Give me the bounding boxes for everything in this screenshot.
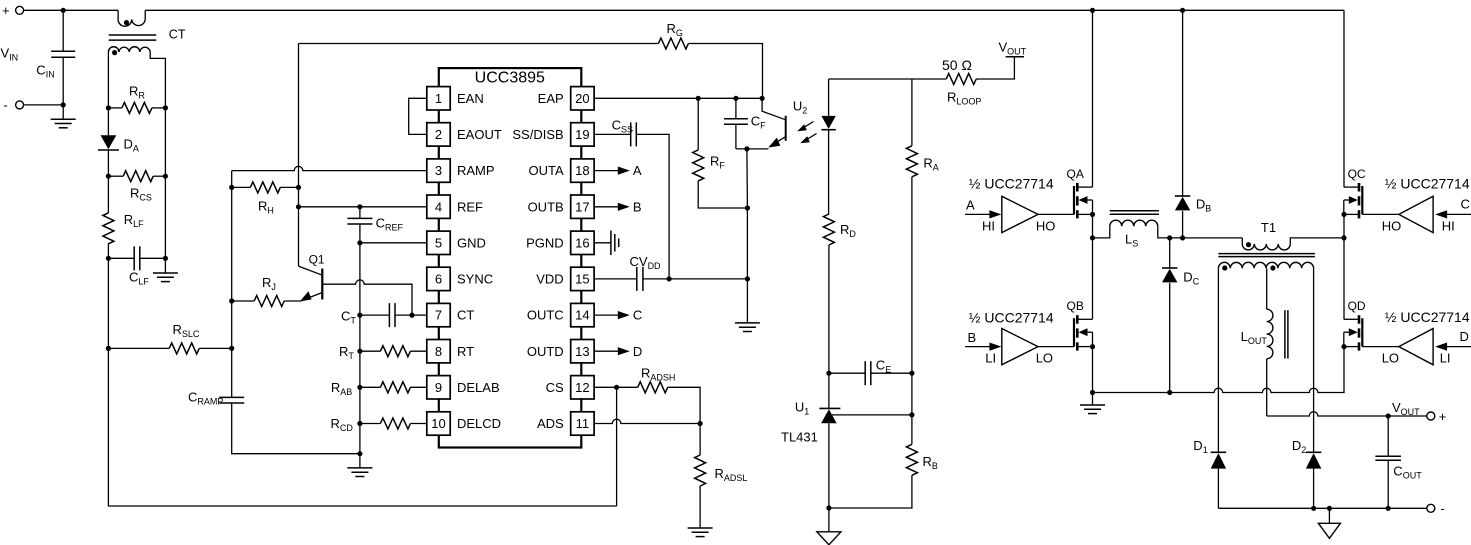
svg-text:5: 5 (435, 235, 442, 250)
resistor R_T (360, 350, 381, 352)
diode D_1 (1211, 451, 1227, 453)
svg-text:A: A (633, 163, 642, 178)
pin 3 RAMP (427, 159, 450, 182)
node C_F top (733, 96, 738, 101)
resistor R_H (232, 186, 251, 188)
svg-text:CT: CT (169, 28, 186, 42)
node rail/D_B (1180, 8, 1185, 13)
wire REF pin lead (299, 206, 427, 208)
ground below C_IN (62, 105, 64, 119)
diode D_C (1169, 238, 1171, 268)
svg-text:D: D (1460, 329, 1469, 344)
wire right branch CT (164, 108, 166, 176)
wire secondary left to D_1 (1217, 268, 1219, 452)
svg-text:EAOUT: EAOUT (457, 127, 502, 142)
wire PGND (594, 242, 611, 244)
svg-text:OUTA: OUTA (529, 163, 564, 178)
optocoupler U2 LED (828, 79, 830, 116)
svg-text:1: 1 (435, 91, 442, 106)
svg-text:UCC3895: UCC3895 (475, 70, 545, 87)
capacitor C_RAMP (219, 396, 244, 398)
inductor L_S (1093, 226, 1110, 238)
node output gnd stub (1327, 506, 1332, 511)
svg-text:6: 6 (435, 272, 442, 287)
svg-text:SYNC: SYNC (457, 272, 493, 287)
pin 5 GND (427, 231, 450, 254)
ground PGND sideways (610, 231, 612, 256)
resistor R_R (108, 107, 122, 109)
inductor L_OUT core (1284, 310, 1286, 358)
ground below R_ADSL (688, 527, 713, 529)
op-amp U? IC body UCC3895 (439, 68, 582, 447)
wire TL431 ref lead (832, 414, 912, 416)
svg-text:½ UCC27714: ½ UCC27714 (969, 309, 1054, 325)
node phase A / L_S tap (1090, 235, 1095, 240)
node R_R right (163, 105, 168, 110)
svg-text:T1: T1 (1261, 220, 1276, 235)
wire driver B output (1038, 346, 1074, 348)
svg-text:14: 14 (575, 308, 589, 323)
node V_IN-/ground junction (61, 102, 66, 107)
wire V_OUT+ line with hop (1267, 412, 1427, 416)
resistor R_CD (360, 423, 381, 425)
svg-text:17: 17 (575, 199, 589, 214)
svg-text:20: 20 (575, 91, 589, 106)
diode D_2 (1306, 451, 1322, 453)
V_OUT- terminal (1427, 504, 1435, 512)
svg-text:+: + (2, 3, 10, 18)
capacitor CV_DD (636, 267, 638, 291)
pin 2 EAOUT (427, 123, 450, 146)
svg-text:OUTC: OUTC (527, 308, 564, 323)
pin 6 SYNC (427, 267, 450, 290)
capacitor C_SS (594, 133, 631, 135)
wire divider mid (911, 373, 913, 415)
resistor R_A (911, 79, 913, 146)
wire GND pin lead (360, 242, 427, 244)
svg-text:15: 15 (575, 272, 589, 287)
wire R_R to D_A (107, 108, 109, 135)
wire OUTB (594, 206, 618, 208)
node C_LF left (106, 256, 111, 261)
ground chassis below TL431 (828, 508, 830, 532)
svg-text:D: D (633, 344, 642, 359)
wire analog ground vertical (359, 243, 361, 454)
pin 19 SS/DISB (571, 123, 594, 146)
svg-text:B: B (633, 199, 642, 214)
node R_R left (106, 105, 111, 110)
node QC source (1341, 212, 1346, 217)
resistor R_G (299, 43, 659, 45)
ground bridge (1092, 393, 1094, 405)
ground chassis output (1328, 508, 1330, 523)
svg-text:DELAB: DELAB (457, 380, 500, 395)
svg-text:RAMP: RAMP (457, 163, 495, 178)
svg-text:QC: QC (1348, 167, 1366, 181)
wire secondary center tap (1266, 268, 1268, 309)
arrow OUTD D (618, 347, 630, 355)
node gnd rail/D_C (1167, 390, 1172, 395)
svg-text:½ UCC27714: ½ UCC27714 (1385, 309, 1470, 325)
wire VDD lead (594, 278, 637, 280)
node R_CS left (106, 174, 111, 179)
node C_E left (826, 371, 831, 376)
node QD source (1341, 344, 1346, 349)
svg-text:TL431: TL431 (781, 430, 818, 445)
pin 7 CT (427, 303, 450, 326)
svg-text:4: 4 (435, 199, 442, 214)
transistor Q1 (299, 266, 322, 275)
node R_SLC right (229, 346, 234, 351)
svg-text:ADS: ADS (537, 416, 564, 431)
node R_H left (229, 185, 234, 190)
node C_T left (357, 313, 362, 318)
svg-text:Q1: Q1 (309, 253, 325, 267)
svg-text:½ UCC27714: ½ UCC27714 (1385, 176, 1470, 192)
node ADS junction (698, 421, 703, 426)
wire emitter net (736, 148, 769, 150)
wire V_IN- lead (24, 104, 64, 106)
node EAP/R_G corner (760, 96, 765, 101)
wire opto top rail (829, 78, 947, 80)
transformer T1 primary (1241, 238, 1243, 244)
transformer T1 secondary (1218, 262, 1313, 268)
pin 17 OUTB (571, 195, 594, 218)
node R_F top (696, 96, 701, 101)
wire OUTD (594, 350, 618, 352)
node R_SLC left (106, 346, 111, 351)
shunt regulator U1 TL431 (828, 373, 830, 408)
pin 10 DELCD (427, 412, 450, 435)
wire RAMP vertical branch (231, 171, 233, 398)
svg-text:13: 13 (575, 344, 589, 359)
node C_SS/VDD net (667, 276, 672, 281)
transformer CT secondary (107, 52, 109, 108)
capacitor C_IN (62, 10, 64, 51)
node R_AB (357, 385, 362, 390)
svg-text:HO: HO (1036, 218, 1056, 233)
capacitor C_E (829, 372, 865, 374)
node R_H right (296, 185, 301, 190)
wire CS to bottom run (616, 387, 618, 506)
capacitor C_F (735, 98, 737, 118)
ground VDD net (746, 279, 748, 323)
arrow OUTB B (618, 203, 630, 211)
transformer CT core (109, 34, 157, 36)
node D_B bottom (1180, 235, 1185, 240)
transformer CT primary (117, 10, 119, 19)
svg-text:12: 12 (575, 380, 589, 395)
svg-text:LO: LO (1382, 350, 1399, 365)
node R_T (357, 349, 362, 354)
svg-text:11: 11 (576, 416, 590, 431)
wire OUTC (594, 314, 618, 316)
node D_2 anode (1311, 506, 1316, 511)
svg-text:B: B (968, 330, 977, 345)
svg-text:7: 7 (435, 308, 442, 323)
capacitor C_LF (108, 257, 134, 259)
node ground rail bottom (357, 451, 362, 456)
resistor R_AB (360, 386, 381, 388)
arrow OUTC C (618, 311, 630, 319)
resistor R_LOOP 50ohm (946, 74, 976, 85)
svg-text:-: - (1440, 501, 1444, 516)
- input terminal (16, 101, 24, 109)
svg-text:10: 10 (431, 416, 445, 431)
svg-text:16: 16 (575, 235, 589, 250)
wire V_IN+ top rail (24, 9, 119, 11)
svg-text:3: 3 (435, 163, 442, 178)
svg-text:CT: CT (457, 308, 474, 323)
wire Q1 base to CT pin with hop (322, 280, 412, 315)
svg-text:C: C (1461, 197, 1470, 212)
svg-text:2: 2 (435, 127, 442, 142)
node emitter net tee (744, 146, 749, 151)
node R_CS right (163, 174, 168, 179)
svg-text:9: 9 (435, 380, 442, 395)
node R_CD (357, 421, 362, 426)
node GND/C_REF (357, 240, 362, 245)
resistor R_ADSH (638, 382, 668, 393)
pin 14 OUTC (571, 303, 594, 326)
capacitor C_OUT (1387, 416, 1389, 456)
svg-text:19: 19 (575, 127, 589, 142)
wire REF vertical branch (298, 44, 300, 267)
ground right of C_LF (164, 258, 166, 272)
wire QC drain to rail (1343, 10, 1345, 187)
pin 18 OUTA (571, 159, 594, 182)
resistor R_F (697, 98, 699, 150)
resistor R_ADSL (699, 424, 701, 456)
inductor L_OUT (1267, 309, 1273, 359)
wire driver A output (1038, 213, 1074, 215)
wire EAP lead (594, 97, 762, 99)
wire phase node A (1092, 214, 1094, 319)
svg-text:50 Ω: 50 Ω (942, 57, 972, 73)
svg-text:HI: HI (982, 218, 995, 233)
resistor R_CS (108, 175, 123, 177)
wire OUTA (594, 170, 618, 172)
resistor R_J (232, 300, 255, 302)
svg-text:HO: HO (1382, 219, 1402, 234)
svg-text:QD: QD (1348, 299, 1366, 313)
node D_C top (1167, 235, 1172, 240)
svg-text:8: 8 (435, 344, 442, 359)
svg-text:OUTB: OUTB (528, 199, 564, 214)
pin 9 DELAB (427, 376, 450, 399)
node ref/divider (909, 412, 914, 417)
node CT pin junction (409, 313, 414, 318)
arrow OUTA A (618, 167, 630, 175)
wire CS bottom run (108, 348, 616, 506)
resistor R_LF (107, 176, 109, 213)
diode D_B (1182, 10, 1184, 196)
wire D_A to R_CS (107, 150, 109, 176)
node CS junction (614, 385, 619, 390)
inductor L_S core (1110, 210, 1159, 212)
wire ADS lead with hop (594, 419, 700, 423)
svg-text:18: 18 (575, 163, 589, 178)
pin 11 ADS (571, 412, 594, 435)
svg-text:+: + (1439, 409, 1447, 424)
svg-text:DELCD: DELCD (457, 416, 501, 431)
wire EAN-EAOUT loop (409, 98, 427, 134)
svg-text:½ UCC27714: ½ UCC27714 (969, 176, 1054, 192)
node C_OUT top (1386, 413, 1391, 418)
node R_J left (229, 298, 234, 303)
resistor R_SLC (108, 347, 169, 349)
wire CS lead (594, 386, 638, 388)
svg-text:EAP: EAP (538, 91, 564, 106)
optocoupler U2 light arrows (801, 122, 814, 130)
node VDD net right (745, 276, 750, 281)
node rail/QA drain (1090, 8, 1095, 13)
node REF/R_G branch (296, 204, 301, 209)
wire CT pin lead (412, 314, 427, 316)
svg-text:PGND: PGND (526, 235, 564, 250)
node REF/C_REF (357, 204, 362, 209)
svg-text:QA: QA (1067, 167, 1084, 181)
wire phase node B (1343, 214, 1345, 319)
wire left sense branch down (107, 258, 109, 348)
optocoupler U2 phototransistor (762, 98, 786, 120)
diode D_A (101, 135, 117, 149)
svg-text:QB: QB (1067, 299, 1084, 313)
pin 15 VDD (571, 267, 594, 290)
node C_OUT bottom (1386, 506, 1391, 511)
svg-text:VDD: VDD (536, 272, 563, 287)
svg-text:LO: LO (1036, 351, 1053, 366)
svg-text:RT: RT (457, 344, 474, 359)
wire V_OUT- rail (1218, 507, 1426, 509)
capacitor C_T (360, 314, 390, 316)
node QA source (1090, 212, 1095, 217)
ground IC analog (359, 454, 361, 468)
svg-text:REF: REF (457, 199, 483, 214)
wire RAMP pin lead with hop (232, 166, 427, 170)
svg-text:GND: GND (457, 235, 486, 250)
svg-text:-: - (3, 98, 7, 113)
transformer T1 core (1218, 253, 1315, 255)
wire QA drain to rail (1092, 10, 1094, 187)
wire bridge gnd rail with hops (1093, 347, 1345, 393)
wire gnd net vertical (746, 149, 749, 279)
pin 13 OUTD (571, 340, 594, 363)
svg-text:C: C (633, 308, 642, 323)
svg-text:LI: LI (1440, 350, 1451, 365)
node C_LF right (163, 256, 168, 261)
svg-text:OUTD: OUTD (527, 344, 564, 359)
svg-text:CS: CS (546, 380, 564, 395)
pin 20 EAP (571, 87, 594, 110)
+ input terminal (16, 6, 24, 14)
node V_IN+/C_IN junction (61, 8, 66, 13)
capacitor C_REF (359, 207, 361, 219)
svg-text:EAN: EAN (457, 91, 484, 106)
pin 12 CS (571, 376, 594, 399)
resistor R_B (911, 415, 913, 444)
wire secondary right to D_2 (1313, 268, 1315, 452)
pin 1 EAN (427, 87, 450, 110)
node QB source (1090, 344, 1095, 349)
pin 8 RT (427, 340, 450, 363)
svg-text:A: A (966, 198, 975, 213)
node TL431 anode bottom (826, 505, 831, 510)
node phase B / T1 tap (1341, 235, 1346, 240)
svg-text:HI: HI (1442, 219, 1455, 234)
node bridge gnd rail left (1090, 390, 1095, 395)
svg-text:LI: LI (985, 351, 996, 366)
svg-text:SS/DISB: SS/DISB (512, 127, 563, 142)
pin 4 REF (427, 195, 450, 218)
node R_F bottom (745, 205, 750, 210)
resistor R_D (823, 214, 834, 245)
pin 16 PGND (571, 231, 594, 254)
node C_E right (909, 371, 914, 376)
wire QB source to gnd rail (1092, 347, 1094, 393)
